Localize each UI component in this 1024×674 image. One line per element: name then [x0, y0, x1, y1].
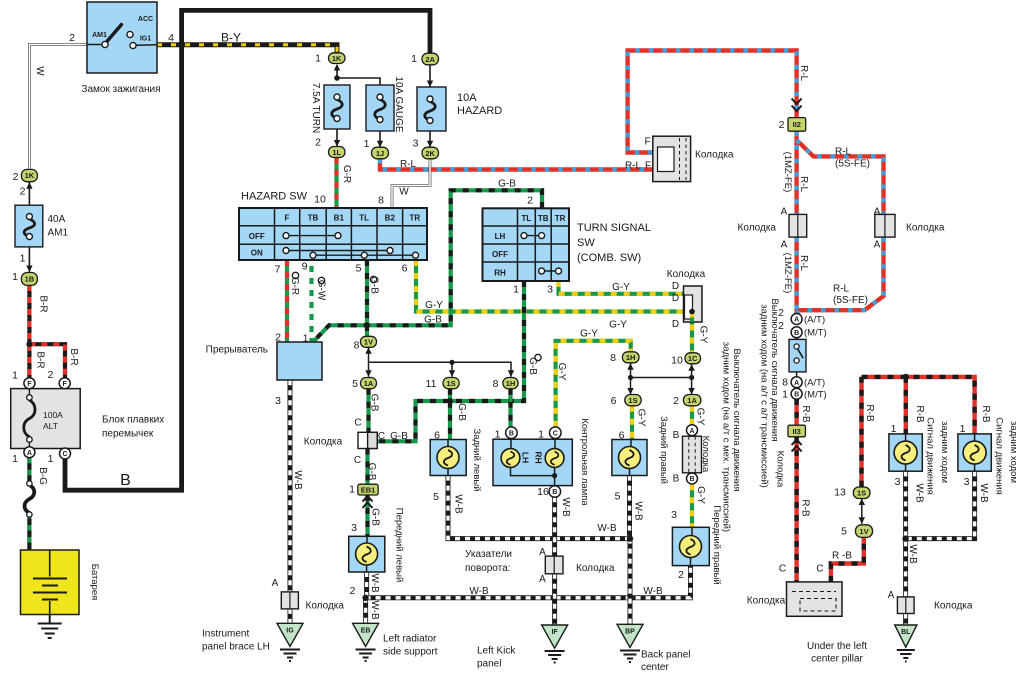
svg-text:ON: ON [251, 249, 263, 258]
svg-text:OFF: OFF [492, 250, 508, 259]
svg-text:G-B: G-B [456, 403, 467, 421]
node reverse bus junction [903, 374, 909, 380]
wire R-L 1J to connector F [380, 159, 653, 170]
svg-text:10: 10 [314, 194, 326, 206]
svg-text:Блок плавких: Блок плавких [102, 415, 164, 426]
fusible link block [11, 378, 81, 459]
svg-text:center: center [641, 662, 669, 673]
wire R-B switch to II3 to connector C [794, 399, 798, 582]
svg-text:W-B: W-B [469, 586, 489, 597]
svg-text:3: 3 [895, 476, 901, 488]
svg-text:1A: 1A [364, 379, 374, 388]
svg-text:B-Y: B-Y [221, 31, 241, 45]
wire G-B 1A to connector C to EB1 to front-left lamp [368, 389, 369, 537]
arrow into 1V [365, 347, 371, 354]
svg-text:Колодка: Колодка [906, 223, 945, 234]
svg-text:G-Y: G-Y [695, 486, 706, 504]
wire B-Y ignition pin4 to fuse 1K [157, 45, 337, 53]
svg-text:B-G: B-G [37, 467, 48, 485]
svg-text:D: D [672, 319, 679, 330]
svg-text:B: B [509, 430, 514, 437]
svg-text:1: 1 [960, 423, 966, 435]
svg-text:1K: 1K [332, 54, 342, 63]
svg-text:C: C [816, 564, 823, 575]
svg-text:1: 1 [891, 423, 897, 435]
svg-text:(5S-FE): (5S-FE) [835, 159, 870, 170]
svg-text:R-L: R-L [798, 255, 809, 272]
wire G-Y 1S to rear-right lamp [630, 406, 634, 440]
svg-text:6: 6 [611, 395, 617, 407]
svg-text:2: 2 [48, 369, 54, 381]
svg-text:II3: II3 [793, 427, 801, 436]
ground triangle IF [542, 625, 568, 663]
lamp front left [349, 536, 385, 572]
svg-text:13: 13 [834, 487, 846, 499]
chevrons EB1 [363, 496, 373, 508]
svg-text:HAZARD SW: HAZARD SW [241, 191, 308, 203]
reverse light switch box [789, 339, 806, 372]
svg-text:C: C [62, 451, 67, 458]
wire W 2K to HAZARD SW B2 [392, 159, 430, 208]
lamp rear right [612, 440, 647, 476]
svg-text:C: C [354, 418, 361, 429]
ground triangle BL [895, 625, 917, 662]
svg-text:8: 8 [493, 378, 499, 390]
svg-text:G-Y: G-Y [698, 326, 709, 344]
svg-text:LH: LH [521, 452, 531, 463]
wire W-B rear lamps upper bus to BP ground [448, 476, 630, 625]
svg-text:8: 8 [610, 352, 616, 364]
svg-text:задним ходом (на а/т с а/т тра: задним ходом (на а/т с а/т трансмиссией) [759, 304, 770, 487]
svg-text:3: 3 [671, 509, 677, 521]
svg-text:F: F [285, 214, 290, 223]
svg-text:4: 4 [168, 32, 174, 44]
svg-text:1A: 1A [687, 396, 697, 405]
svg-text:Сигнал движения: Сигнал движения [925, 417, 936, 495]
svg-text:1: 1 [12, 453, 18, 465]
svg-text:G-W: G-W [316, 280, 327, 301]
svg-text:7.5A TURN: 7.5A TURN [310, 83, 321, 133]
chevrons II2 [792, 99, 802, 112]
svg-text:Колодка: Колодка [775, 451, 786, 488]
svg-text:R-L: R-L [798, 176, 809, 193]
wire battery to ground [49, 615, 51, 624]
svg-text:10: 10 [671, 355, 683, 367]
svg-text:1: 1 [513, 284, 519, 296]
svg-text:TL: TL [359, 214, 369, 223]
svg-text:2: 2 [678, 569, 684, 581]
ground battery [38, 624, 62, 639]
wire G-B 1H to indicator LH bulb [508, 389, 512, 427]
svg-text:C: C [553, 430, 558, 437]
connector oval 1V right [856, 525, 873, 538]
svg-text:A: A [272, 578, 279, 589]
svg-text:HAZARD: HAZARD [457, 105, 502, 117]
svg-text:5: 5 [356, 263, 362, 275]
svg-text:panel brace LH: panel brace LH [202, 642, 270, 653]
battery fusible link squiggle [25, 481, 35, 517]
wire G-Y turn-signal pin3 to connector D [559, 281, 693, 294]
svg-text:G-Y: G-Y [636, 409, 647, 427]
wire G-B 1S to rear-left lamp [448, 389, 452, 440]
svg-text:side support: side support [383, 647, 438, 658]
svg-text:Прерыватель: Прерыватель [206, 345, 268, 356]
svg-text:A: A [781, 240, 788, 251]
connector II2 [788, 118, 806, 132]
svg-text:IF: IF [551, 629, 558, 636]
svg-text:(M/T): (M/T) [804, 390, 827, 401]
svg-text:6: 6 [402, 263, 408, 275]
svg-text:3: 3 [275, 395, 281, 407]
svg-text:1S: 1S [857, 489, 866, 498]
svg-text:Instrument: Instrument [202, 629, 249, 640]
svg-text:B: B [120, 472, 131, 489]
wire G-R 1L to HAZARD SW B1 [334, 158, 338, 208]
svg-text:R-L: R-L [833, 284, 850, 295]
svg-text:Колодка: Колодка [700, 436, 711, 473]
svg-text:Колодка: Колодка [934, 601, 973, 612]
svg-text:W: W [34, 66, 45, 76]
arrow into 1C [688, 364, 694, 371]
wire thin 1S to 1V right [861, 499, 863, 524]
svg-text:G-R: G-R [289, 277, 300, 295]
lamp reverse left [889, 434, 922, 471]
svg-text:Сигнал движения: Сигнал движения [994, 417, 1005, 495]
svg-text:G-B: G-B [369, 394, 380, 412]
svg-text:2: 2 [779, 119, 785, 131]
svg-text:D: D [672, 281, 679, 292]
svg-text:(COMB. SW): (COMB. SW) [577, 252, 641, 264]
wire G-Y hook 1H to indicator RH bulb [556, 341, 631, 427]
connector oval 1J [372, 147, 389, 159]
svg-text:W-B: W-B [453, 494, 464, 514]
svg-text:R -B: R -B [832, 551, 852, 562]
svg-text:IG: IG [286, 628, 294, 635]
wire W-B reverse lamps to BL ground [906, 471, 975, 625]
svg-text:1H: 1H [626, 353, 636, 362]
svg-text:R-L: R-L [625, 161, 642, 172]
svg-text:1V: 1V [859, 527, 868, 536]
svg-text:Left radiator: Left radiator [383, 634, 437, 645]
svg-text:RH: RH [494, 269, 506, 278]
svg-text:(M/T): (M/T) [804, 328, 827, 339]
svg-text:Колодка: Колодка [306, 601, 345, 612]
wire R-B connector to 1V 1S and reverse lamp bus [831, 377, 975, 582]
svg-text:3: 3 [547, 284, 553, 296]
wire W-B front-left lamp to EB ground and low bus to front-right lamp [366, 566, 691, 625]
svg-text:W-B: W-B [369, 600, 380, 620]
svg-text:1: 1 [364, 138, 370, 150]
svg-text:TR: TR [409, 214, 420, 223]
wire B-R 1B to fusible link block [29, 285, 65, 378]
svg-text:G-Y: G-Y [695, 408, 706, 426]
svg-text:F: F [27, 381, 32, 388]
svg-text:G-B: G-B [390, 431, 408, 442]
svg-text:1S: 1S [447, 379, 456, 388]
svg-text:задним ходом: задним ходом [939, 421, 950, 483]
svg-text:B: B [794, 392, 799, 399]
svg-text:(A/T): (A/T) [804, 315, 825, 326]
svg-text:Колодка: Колодка [304, 437, 343, 448]
svg-text:G-R: G-R [341, 165, 352, 183]
svg-text:R-B: R-B [800, 499, 811, 517]
wire thin reverse switch links [796, 338, 798, 377]
lamp rear left [430, 440, 466, 476]
svg-text:R-L: R-L [835, 147, 852, 158]
wire G-Y 1A to connector to front-right lamp [690, 406, 694, 528]
wire thin distribution line 1V 1A 1S 1H [369, 347, 512, 377]
svg-text:6: 6 [434, 430, 440, 442]
svg-text:Передний правый: Передний правый [711, 505, 722, 584]
connector oval 1K left [21, 169, 37, 181]
svg-text:A: A [539, 574, 546, 585]
connector EB1 [358, 484, 378, 495]
svg-text:F: F [644, 137, 650, 148]
svg-text:(1MZ-FE): (1MZ-FE) [782, 152, 793, 193]
svg-text:100A: 100A [43, 410, 63, 420]
svg-text:TL: TL [522, 214, 532, 223]
svg-text:B: B [673, 474, 680, 485]
svg-text:G-Y: G-Y [556, 363, 567, 381]
TURN SIGNAL SW table [483, 208, 570, 281]
svg-text:G-B: G-B [424, 315, 442, 326]
svg-text:1: 1 [411, 53, 417, 65]
arrow into 1V reverse [859, 517, 865, 524]
svg-text:C: C [779, 564, 786, 575]
svg-text:7: 7 [275, 264, 281, 276]
wire W ignition pin2 to 1K [29, 45, 87, 169]
svg-text:G-Y: G-Y [580, 329, 598, 340]
node dist2 left [628, 375, 633, 380]
lamp indicator RH LH box [493, 427, 572, 497]
svg-text:1: 1 [303, 333, 309, 345]
arrow into 1S right2 [627, 388, 633, 395]
svg-text:IG1: IG1 [140, 36, 151, 43]
ignition switch box [87, 2, 157, 73]
svg-text:W-B: W-B [633, 501, 644, 521]
svg-text:AM1: AM1 [48, 228, 69, 239]
svg-text:B: B [552, 489, 557, 496]
svg-text:Указатели: Указатели [465, 549, 512, 560]
svg-text:BP: BP [625, 629, 635, 636]
svg-text:A: A [874, 207, 881, 218]
svg-text:5: 5 [615, 491, 621, 503]
wire G-Y hazard pin6 to connector D [416, 260, 692, 312]
svg-text:Колодка: Колодка [667, 269, 706, 280]
svg-text:1B: 1B [25, 275, 35, 284]
connector oval 1K top [329, 53, 346, 64]
svg-text:G-B: G-B [369, 276, 380, 294]
svg-text:9: 9 [302, 261, 308, 273]
svg-text:1: 1 [495, 429, 501, 441]
svg-text:1: 1 [20, 253, 26, 265]
svg-text:A: A [874, 240, 881, 251]
circled pin A (A/T) lower [791, 377, 802, 388]
arrow into 1A [365, 370, 371, 377]
svg-text:TURN SIGNAL: TURN SIGNAL [577, 222, 651, 234]
svg-text:1: 1 [315, 53, 321, 65]
connector bottom big [787, 582, 843, 616]
svg-text:перемычек: перемычек [102, 429, 154, 440]
svg-text:A: A [794, 317, 799, 324]
svg-text:W-B: W-B [907, 544, 918, 564]
connector A indicator-IF [545, 556, 563, 574]
ground triangle IG [277, 623, 303, 661]
svg-text:6: 6 [619, 430, 625, 442]
svg-text:ACC: ACC [138, 16, 153, 23]
svg-text:2: 2 [673, 395, 679, 407]
svg-text:Замок зажигания: Замок зажигания [81, 84, 160, 95]
svg-text:AM1: AM1 [92, 32, 107, 39]
svg-text:G-Y: G-Y [612, 282, 630, 293]
svg-text:W-B: W-B [292, 470, 303, 490]
fuse 7.5A TURN [324, 85, 350, 129]
svg-text:B: B [794, 330, 799, 337]
svg-text:R-B: R-B [864, 404, 875, 422]
svg-text:D: D [672, 293, 679, 304]
wire W-B indicator pin16 to IF ground [552, 497, 557, 625]
node W-B low bus junction [362, 595, 368, 601]
svg-text:40A: 40A [48, 214, 66, 225]
svg-text:16: 16 [537, 486, 549, 498]
svg-text:W-B: W-B [643, 586, 663, 597]
svg-text:2: 2 [275, 332, 281, 344]
svg-text:R-B: R-B [914, 405, 925, 423]
svg-text:Колодка: Колодка [738, 223, 777, 234]
svg-text:R-B: R-B [800, 405, 811, 423]
svg-text:F: F [63, 381, 68, 388]
node distribution junction [449, 360, 454, 365]
svg-text:Передний левый: Передний левый [394, 508, 405, 583]
arrow into 1K top fuse [334, 64, 340, 71]
svg-text:TB: TB [538, 214, 549, 223]
svg-text:F: F [645, 161, 651, 172]
wire G-W hazard pin9 to flasher pin1 [309, 260, 313, 342]
ground triangle EB [353, 623, 379, 661]
svg-text:TR: TR [555, 214, 566, 223]
connector A 5S-FE [875, 214, 895, 237]
svg-text:Задний левый: Задний левый [471, 428, 482, 491]
svg-text:W: W [399, 187, 409, 198]
svg-text:G-B: G-B [527, 357, 538, 375]
svg-text:Under the left: Under the left [807, 641, 867, 652]
svg-text:A: A [794, 380, 799, 387]
lamp front right [672, 527, 709, 565]
node connector D junction [689, 309, 695, 315]
svg-text:A: A [27, 450, 32, 457]
svg-text:задним ходом (на а/т с мех. тр: задним ходом (на а/т с мех. трансмиссией… [721, 342, 732, 532]
svg-text:1V: 1V [364, 338, 373, 347]
svg-text:5: 5 [841, 526, 847, 538]
svg-text:Колодка: Колодка [695, 150, 734, 161]
arrow into 1S [449, 370, 455, 377]
svg-text:B-R: B-R [38, 295, 49, 312]
connector A flasher-IG [281, 592, 298, 609]
connector II3 [788, 425, 805, 437]
battery [21, 550, 80, 615]
flasher relay box [277, 342, 322, 380]
svg-text:G-B: G-B [498, 179, 516, 190]
svg-text:(A/T): (A/T) [804, 378, 825, 389]
svg-text:1K: 1K [25, 171, 35, 180]
circled pin B (M/T) upper [791, 327, 802, 338]
chevrons II3 [792, 440, 802, 452]
svg-text:Выключатель сигнала движения: Выключатель сигнала движения [731, 348, 742, 491]
svg-text:C: C [354, 455, 361, 466]
arrow into 1H [508, 370, 514, 377]
ground triangle BP [617, 624, 643, 662]
svg-text:SW: SW [577, 237, 595, 249]
svg-text:1S: 1S [628, 396, 637, 405]
svg-text:2: 2 [527, 195, 533, 207]
svg-text:2K: 2K [425, 149, 435, 158]
circled pin A (A/T) upper [791, 314, 802, 325]
arrow into hazard fuse [427, 81, 433, 88]
fuse 10A HAZARD [417, 87, 446, 131]
connector R-L F box top right [653, 136, 691, 181]
svg-text:Left Kick: Left Kick [477, 646, 516, 657]
svg-text:W-B: W-B [978, 483, 989, 503]
svg-text:(5S-FE): (5S-FE) [833, 295, 868, 306]
wire B-G fuse block A to battery [27, 458, 31, 550]
svg-text:Колодка: Колодка [576, 563, 615, 574]
connector box between A and B front right [683, 436, 702, 473]
svg-text:B-R: B-R [35, 351, 46, 368]
node W-B upper bus junction [627, 535, 633, 541]
svg-text:Задний правый: Задний правый [658, 416, 669, 484]
svg-text:8: 8 [354, 340, 360, 352]
svg-text:1: 1 [538, 429, 544, 441]
node dist2 right [689, 375, 694, 380]
svg-text:A: A [539, 547, 546, 558]
arrow into 1K left [26, 182, 32, 189]
svg-text:5: 5 [352, 378, 358, 390]
wire R-L loop connector F to II2 and branches [628, 51, 884, 314]
svg-text:G-Y: G-Y [425, 300, 443, 311]
wire W-B flasher pin3 to IG ground [288, 380, 293, 624]
svg-text:Back panel: Back panel [641, 650, 690, 661]
svg-text:II2: II2 [793, 120, 801, 129]
fuse 10A GAUGE [366, 85, 394, 131]
svg-text:8: 8 [782, 377, 788, 389]
svg-text:EB: EB [361, 628, 371, 635]
svg-text:1: 1 [12, 370, 18, 382]
svg-text:B-R: B-R [68, 348, 79, 365]
svg-text:G-Y: G-Y [609, 320, 627, 331]
svg-text:1L: 1L [332, 148, 341, 157]
HAZARD SW table [239, 208, 427, 260]
svg-text:panel: panel [477, 659, 501, 670]
svg-text:8: 8 [378, 195, 384, 207]
connector C small box [358, 432, 377, 448]
wire G-R hazard pin7 to flasher pin2 [285, 260, 289, 342]
svg-text:LH: LH [495, 232, 506, 241]
node fuse junction 1K [334, 75, 340, 81]
svg-text:2: 2 [13, 171, 19, 183]
svg-text:Выключатель сигнала движения: Выключатель сигнала движения [769, 298, 780, 441]
svg-text:W-B: W-B [369, 573, 380, 593]
svg-text:1J: 1J [376, 149, 384, 158]
connector ovals 1H 1C 1S 1A right group [622, 352, 639, 363]
arrow into 1J [377, 141, 383, 148]
wire thin links fuse row [29, 65, 430, 272]
circled pin A front right [687, 425, 698, 436]
wire G-Y connector D to 1C [690, 312, 694, 353]
svg-text:BL: BL [901, 629, 911, 636]
svg-text:2: 2 [350, 585, 356, 597]
svg-text:1: 1 [48, 453, 54, 465]
svg-text:W-B: W-B [914, 483, 925, 503]
